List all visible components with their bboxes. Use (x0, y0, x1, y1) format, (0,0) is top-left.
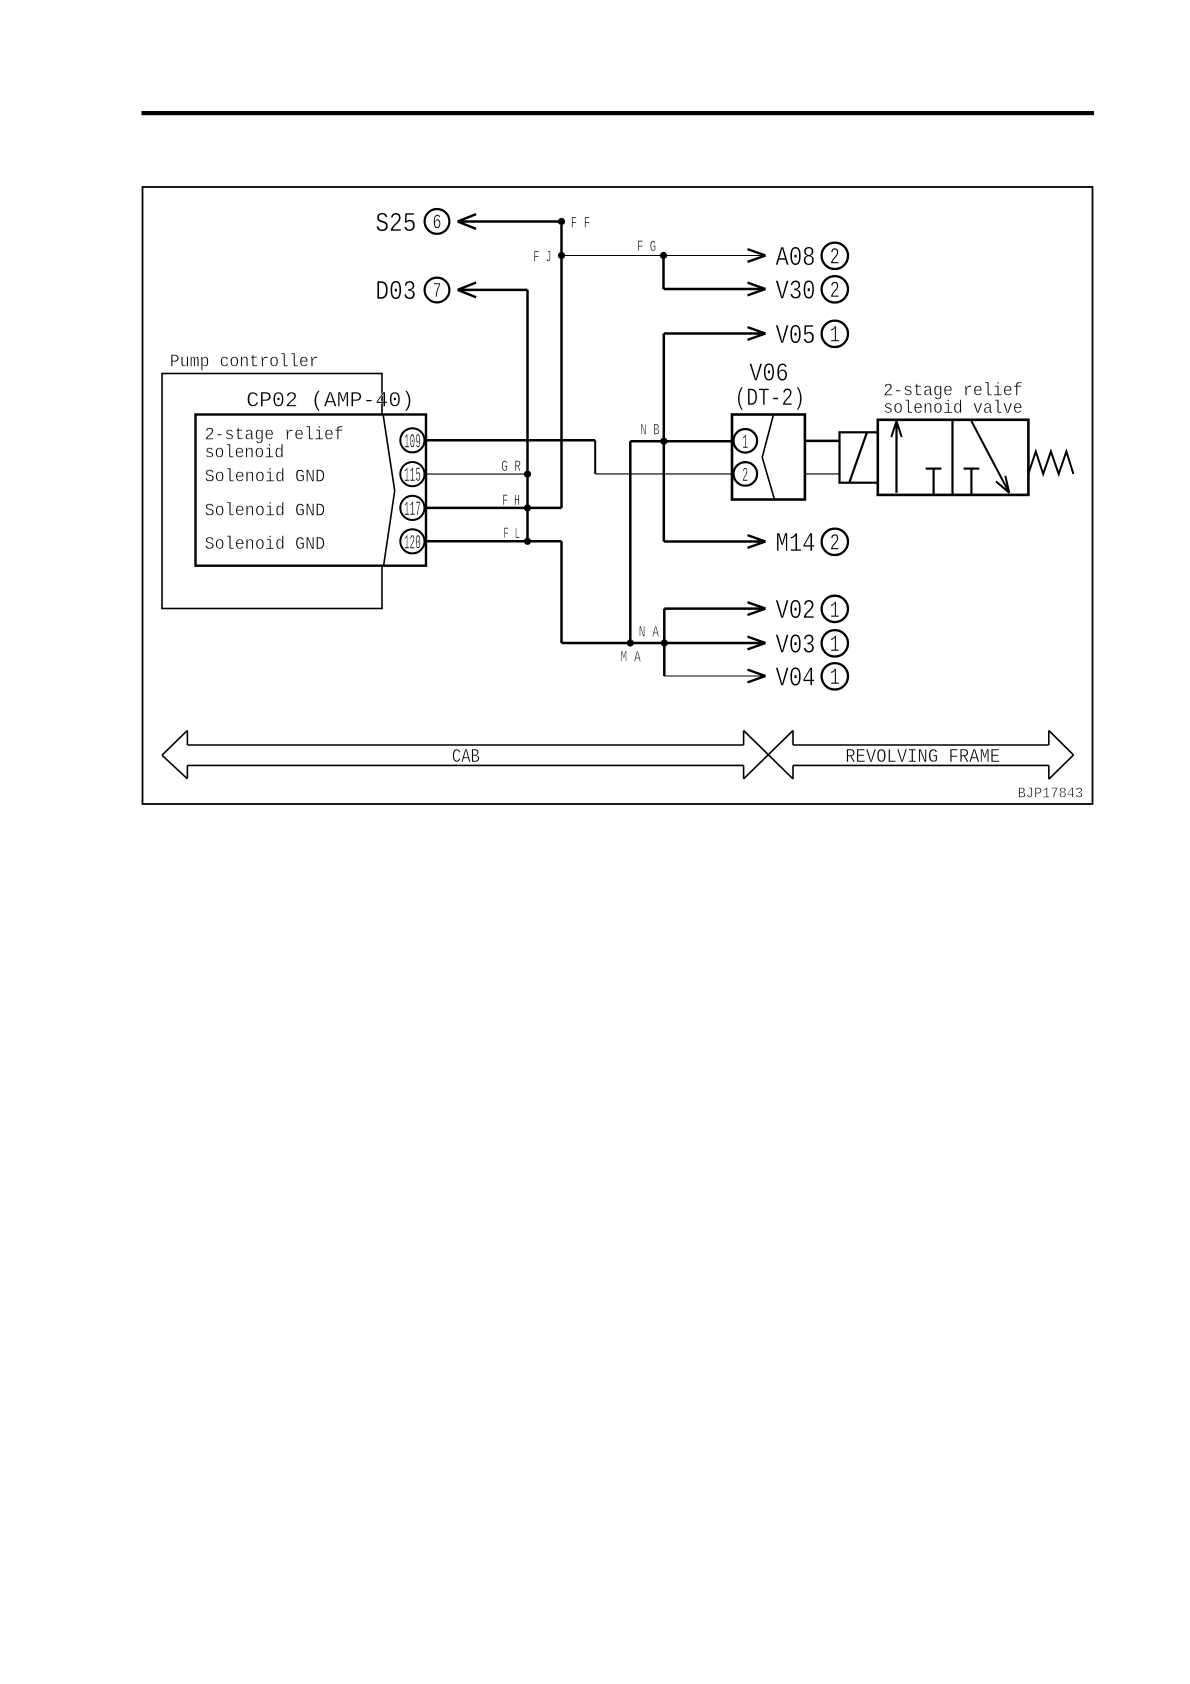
wire NA vertical V02-V04 (663, 609, 666, 676)
node GR (501, 458, 531, 478)
wire FH: pin117 to FJ vertical (425, 507, 562, 510)
svg-text:6: 6 (433, 213, 442, 236)
wire NB horizontal to V06 pin1 and down to MA (630, 441, 732, 643)
CP02 pin 115 (400, 462, 424, 488)
wire FG down to V30 (664, 256, 766, 296)
svg-text:1: 1 (742, 432, 748, 455)
diagram border frame (143, 187, 1093, 804)
svg-text:CAB: CAB (452, 746, 480, 768)
svg-text:V30: V30 (776, 277, 816, 307)
connector V05 pin 1 label (776, 321, 849, 352)
svg-text:F G: F G (637, 238, 656, 256)
connector S25 pin 6 label (375, 209, 449, 240)
svg-text:2: 2 (830, 278, 840, 304)
svg-text:1: 1 (830, 598, 840, 624)
svg-text:2: 2 (830, 245, 840, 271)
connector V02 pin 1 label (776, 596, 849, 627)
wire vertical V05-NB-M14 (663, 334, 666, 542)
svg-text:1: 1 (830, 665, 840, 691)
svg-text:Solenoid GND: Solenoid GND (205, 535, 326, 555)
connector CP02 body (196, 415, 427, 566)
svg-text:V05: V05 (776, 322, 816, 352)
svg-text:2: 2 (830, 531, 840, 557)
connector V06 (DT-2) title (735, 359, 805, 413)
wire V06 pin2 to solenoid (805, 473, 840, 475)
connector V30 pin 2 label (776, 276, 849, 307)
svg-text:V04: V04 (776, 664, 816, 694)
wire FJ vertical (FF down to FH) (560, 222, 563, 508)
svg-text:109: 109 (404, 431, 421, 454)
connector M14 pin 2 label (776, 529, 849, 560)
svg-text:V03: V03 (776, 631, 816, 661)
valve blocked port T left cell (926, 469, 942, 495)
svg-text:S25: S25 (375, 210, 416, 240)
svg-text:REVOLVING FRAME: REVOLVING FRAME (845, 746, 1000, 768)
connector V04 pin 1 label (776, 663, 849, 694)
valve flow arrow up (891, 421, 901, 493)
svg-text:(DT-2): (DT-2) (735, 384, 805, 413)
wire V04 branch (664, 670, 765, 683)
CP02 row label 2-stage relief solenoid (205, 426, 344, 464)
svg-text:Solenoid GND: Solenoid GND (205, 468, 326, 488)
connector D03 pin 7 label (375, 278, 449, 309)
svg-text:solenoid: solenoid (205, 443, 285, 463)
top horizontal rule (142, 111, 1095, 115)
valve diagonal flow arrow (971, 421, 1009, 493)
CP02 pin 117 (400, 496, 424, 522)
REVOLVING FRAME region double arrow (793, 731, 1074, 780)
svg-text:Pump controller: Pump controller (170, 353, 319, 373)
node FL (503, 525, 531, 545)
svg-text:115: 115 (404, 465, 421, 488)
pump controller box (162, 374, 382, 609)
svg-text:N B: N B (640, 422, 659, 440)
svg-text:117: 117 (404, 499, 421, 522)
connector V03 pin 1 label (776, 630, 849, 661)
solenoid actuator symbol (840, 432, 878, 482)
svg-text:V02: V02 (776, 597, 816, 627)
wire V06 pin1 to solenoid (805, 440, 840, 443)
svg-text:F J: F J (533, 248, 551, 266)
svg-text:CP02 (AMP-40): CP02 (AMP-40) (246, 388, 414, 414)
node FF (558, 215, 590, 233)
svg-text:F L: F L (503, 525, 520, 543)
svg-text:solenoid valve: solenoid valve (883, 399, 1023, 419)
svg-text:A08: A08 (776, 244, 816, 274)
wire GR: pin115 to D03 vertical (425, 473, 528, 475)
CP02 pin 120 (400, 529, 424, 555)
node FG (637, 238, 667, 259)
node FJ (533, 248, 565, 266)
wire FF to S25 arrow (458, 214, 562, 229)
valve return spring (1029, 452, 1074, 475)
wire D03 arrow to vertical (458, 283, 528, 298)
V06 pin 1 (734, 429, 758, 455)
svg-text:G R: G R (501, 458, 521, 476)
connector V06 body (732, 415, 805, 500)
svg-text:Solenoid GND: Solenoid GND (205, 502, 326, 522)
wire M14 branch (664, 535, 766, 548)
2-stage relief solenoid valve label (883, 381, 1023, 419)
svg-text:120: 120 (404, 532, 421, 555)
wire FG to A08 arrow (664, 249, 766, 262)
svg-text:2: 2 (742, 465, 748, 488)
CAB region double arrow (162, 730, 793, 779)
wire FL: pin120 right then down to MA row (425, 541, 766, 649)
wire FJ to FG (562, 255, 664, 257)
svg-text:F F: F F (571, 215, 590, 233)
node MA (620, 639, 641, 666)
svg-text:D03: D03 (375, 278, 416, 308)
wire pin109 to V06 pin2 (425, 440, 734, 474)
svg-text:M14: M14 (776, 530, 816, 560)
V06 pin 2 (734, 462, 758, 488)
svg-text:N A: N A (639, 624, 660, 642)
svg-text:F H: F H (502, 492, 520, 510)
node NB (640, 422, 667, 445)
wire V02 branch (664, 602, 765, 615)
wire V05 branch (664, 327, 766, 340)
wire D03 vertical (down to FL) (526, 290, 529, 541)
svg-text:7: 7 (433, 281, 442, 304)
svg-text:1: 1 (830, 632, 840, 658)
valve blocked port T right cell (964, 469, 980, 495)
node FH (502, 492, 531, 512)
CP02 pin 109 (400, 428, 424, 454)
svg-text:BJP17843: BJP17843 (1018, 785, 1084, 802)
connector A08 pin 2 label (776, 243, 849, 274)
valve body (878, 420, 1029, 495)
node NA (639, 624, 668, 647)
svg-text:M A: M A (620, 648, 641, 666)
svg-text:1: 1 (830, 323, 840, 349)
